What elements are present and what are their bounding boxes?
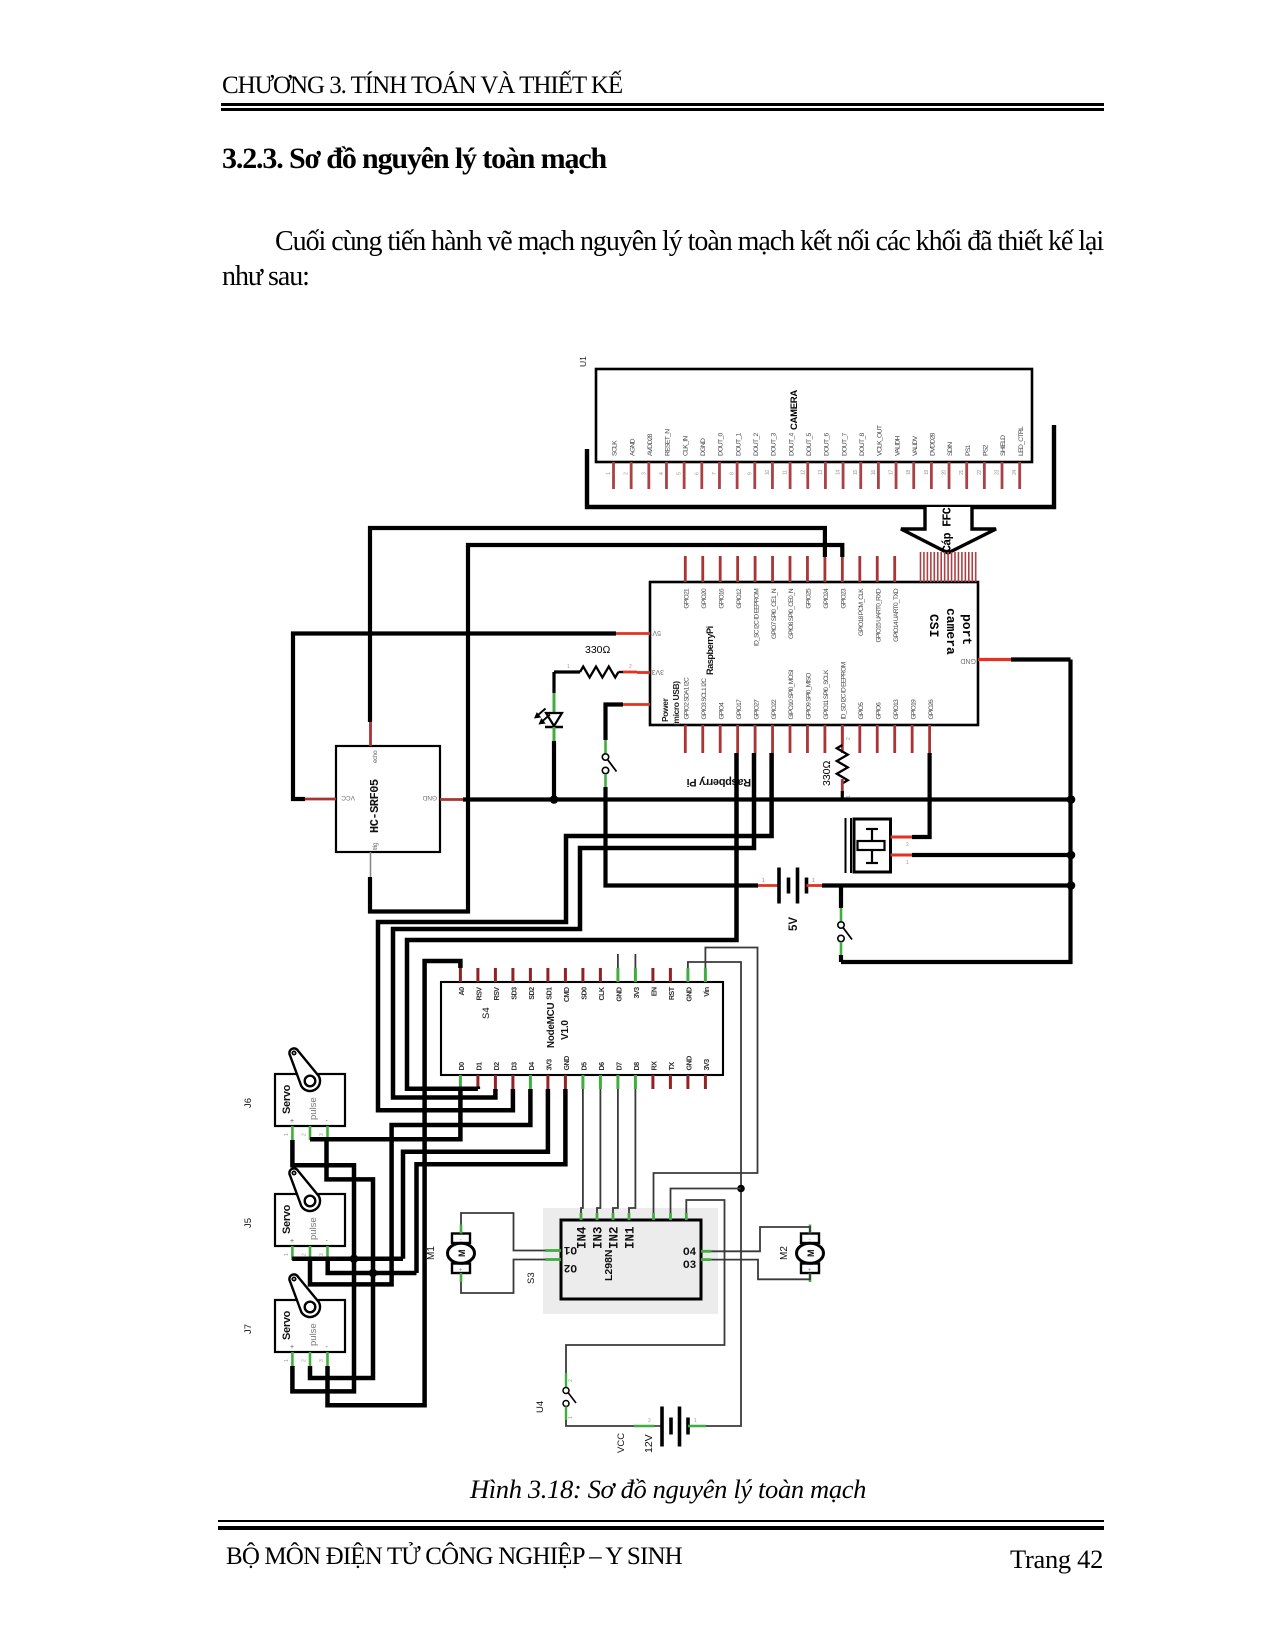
svg-text:M2: M2: [779, 1246, 790, 1260]
svg-text:2: 2: [629, 664, 632, 670]
RaspberryPi top pin GPIO24: [823, 556, 830, 609]
svg-text:HC-SRF05: HC-SRF05: [368, 779, 382, 833]
motor driver L298N (module S3): [543, 1208, 718, 1314]
svg-text:IN2: IN2: [608, 1226, 622, 1249]
svg-text:2: 2: [302, 1133, 308, 1136]
svg-text:D1: D1: [474, 1062, 483, 1071]
label CSI camera port: [926, 608, 974, 655]
LED D1 emission arrows: [534, 709, 550, 725]
svg-text:Servo: Servo: [281, 1204, 293, 1234]
svg-text:1: 1: [762, 878, 765, 884]
svg-text:GPIO19: GPIO19: [910, 699, 917, 720]
svg-text:GPIO5: GPIO5: [858, 702, 865, 720]
camera U1 pin 19 DVDD28: [924, 432, 937, 489]
NodeMCU bottom pin D1: [474, 1062, 483, 1089]
svg-text:U1: U1: [578, 356, 588, 367]
svg-text:+: +: [290, 1238, 294, 1245]
wire: M1 plus to L298N O1: [461, 1213, 546, 1251]
node VCC (12V battery left stub): [616, 1426, 654, 1453]
svg-text:5V: 5V: [652, 629, 661, 636]
svg-text:GPIO27: GPIO27: [753, 699, 760, 720]
svg-text:VALIDH: VALIDH: [894, 435, 901, 456]
svg-text:5: 5: [677, 472, 683, 475]
L298N pin IN2: [608, 1213, 622, 1249]
footer left text: [226, 1543, 682, 1571]
L298N pin O3: [683, 1260, 711, 1272]
svg-text:D5: D5: [579, 1062, 588, 1071]
wire: L298N GND pin to battery minus wire: [671, 1189, 742, 1214]
svg-text:14: 14: [836, 470, 842, 475]
svg-text:GPIO26: GPIO26: [928, 699, 935, 720]
svg-text:330Ω: 330Ω: [821, 760, 833, 786]
svg-text:GPIO4: GPIO4: [718, 702, 725, 720]
svg-text:AVDD28: AVDD28: [647, 433, 654, 456]
camera U1 pin 24 LED_CTRL: [1012, 426, 1025, 489]
svg-text:M: M: [457, 1250, 467, 1258]
wire: switch S2 column (battery line to bottom rail): [839, 886, 843, 909]
NodeMCU top pin GND: [614, 968, 623, 1002]
RaspberryPi left pin 5V: [616, 629, 661, 636]
NodeMCU bottom pin GND: [562, 1056, 571, 1089]
svg-text:RSV: RSV: [474, 987, 483, 1001]
svg-text:VCC: VCC: [341, 794, 355, 801]
NodeMCU top pin 3V3: [632, 968, 641, 999]
NodeMCU top pin CLK: [597, 968, 606, 1000]
NodeMCU V1.0 module S4: [441, 982, 723, 1075]
NodeMCU bottom pin D0: [457, 1062, 466, 1089]
svg-text:GPIO13: GPIO13: [893, 699, 900, 720]
footer rule: [218, 1520, 1104, 1522]
svg-text:S4: S4: [481, 1007, 492, 1019]
camera U1 pin 2 AGND: [624, 438, 637, 489]
RaspberryPi bottom pin GPIO5: [858, 702, 865, 753]
camera U1 pin 13 DOUT_6: [818, 432, 831, 489]
svg-text:O4: O4: [683, 1247, 697, 1259]
servo motor J5: [275, 1168, 345, 1246]
svg-text:D3: D3: [509, 1062, 518, 1071]
camera U1 pin 20 SDIN: [942, 442, 955, 489]
camera U1 pin 21 PS1: [959, 444, 972, 489]
wire: FFC cable outline around camera: [587, 425, 1054, 507]
junction: GND rail at main GND rail: [1067, 795, 1076, 804]
header rule: [221, 103, 1104, 106]
wire: L298N +12V pin to switch U4: [566, 1200, 725, 1373]
svg-text:GPIO18 PCM_CLK: GPIO18 PCM_CLK: [858, 588, 865, 636]
svg-text:LED_CTRL: LED_CTRL: [1018, 426, 1025, 456]
camera U1 pin 3 AVDD28: [641, 433, 654, 489]
svg-text:330Ω: 330Ω: [585, 644, 611, 656]
svg-text:+: +: [290, 1344, 294, 1351]
wire: NodeMCU GND stub up (dangling): [617, 954, 619, 968]
svg-text:24: 24: [1012, 470, 1018, 475]
svg-text:pulse: pulse: [308, 1217, 319, 1240]
wire: NodeMCU D4 to servo J5 pulse: [310, 1089, 530, 1284]
HC-SRF05 pin echo: [371, 722, 380, 763]
servo motor J6: [275, 1048, 345, 1126]
J5 pin pulse: [302, 1246, 310, 1260]
RaspberryPi bottom pin GPIO27: [753, 699, 760, 753]
wire: buzzer pin1 to right rail: [912, 853, 1071, 857]
wire: NodeMCU GND to servo minus rail: [417, 1089, 566, 1273]
J6 pin pulse: [302, 1126, 310, 1140]
svg-text:trig: trig: [372, 842, 379, 850]
svg-text:PS2: PS2: [983, 444, 990, 456]
wire: 5V battery minus to right rail: [822, 883, 1071, 887]
svg-text:PS1: PS1: [965, 444, 972, 456]
L298N power pin: [685, 1213, 688, 1220]
svg-text:SCLK: SCLK: [612, 440, 619, 456]
wire: NodeMCU D8 to L298N IN1: [629, 1089, 635, 1213]
svg-text:CMD: CMD: [562, 987, 571, 1002]
svg-text:DOUT_1: DOUT_1: [735, 432, 742, 456]
junction: LED cathode on GND rail: [550, 795, 559, 804]
svg-text:23: 23: [995, 470, 1001, 475]
wire: NodeMCU 3V3 to servo plus rail: [403, 1089, 548, 1259]
svg-text:1: 1: [568, 1416, 574, 1419]
wire: switch U4 to VCC (12V battery plus): [566, 1420, 634, 1426]
svg-text:-: -: [326, 1344, 329, 1351]
svg-text:GPIO17: GPIO17: [736, 699, 743, 720]
HC-SRF05 pin VCC: [305, 794, 355, 801]
svg-text:DOUT_7: DOUT_7: [841, 432, 848, 456]
svg-text:CLK_IN: CLK_IN: [682, 436, 689, 456]
svg-text:O3: O3: [683, 1260, 697, 1272]
camera U1 pin 17 VALIDH: [889, 435, 902, 489]
RaspberryPi bottom pin GIPO10: [788, 669, 795, 753]
CSI camera port pin header: [921, 552, 976, 582]
J6 pin + (plus): [284, 1126, 292, 1140]
svg-text:VALIDV: VALIDV: [912, 435, 919, 456]
svg-text:GND: GND: [562, 1056, 571, 1071]
RaspberryPi bottom pin GPIO2: [684, 677, 691, 753]
junction: battery line on right rail: [1067, 881, 1076, 890]
svg-text:Servo: Servo: [281, 1310, 293, 1340]
svg-text:port: port: [959, 614, 974, 645]
svg-text:1: 1: [284, 1133, 290, 1136]
RaspberryPi bottom pin GPIO13: [893, 699, 900, 753]
svg-text:S3: S3: [526, 1272, 537, 1284]
svg-text:DOUT_3: DOUT_3: [771, 432, 778, 456]
svg-text:16: 16: [871, 470, 877, 475]
RaspberryPi top pin GPIO8: [788, 556, 795, 639]
svg-text:-: -: [326, 1118, 329, 1125]
svg-text:Power: Power: [660, 697, 670, 722]
svg-text:L298N: L298N: [603, 1249, 615, 1281]
NodeMCU top pin RSV: [492, 968, 501, 1000]
NodeMCU top pin RSV: [474, 968, 483, 1000]
svg-text:1: 1: [812, 878, 815, 884]
M1 terminal stub top: [460, 1225, 463, 1234]
svg-text:GPIO16: GPIO16: [718, 588, 725, 609]
svg-text:DOUT_6: DOUT_6: [824, 432, 831, 456]
L298N pin IN4: [576, 1213, 590, 1249]
NodeMCU bottom pin D2: [492, 1062, 501, 1089]
svg-text:DOUT_0: DOUT_0: [718, 432, 725, 456]
L298N pin O1: [546, 1243, 578, 1255]
wire: switch S1 to 5V battery plus: [606, 787, 759, 886]
svg-text:15: 15: [853, 470, 859, 475]
svg-text:DOUT_5: DOUT_5: [806, 432, 813, 456]
wire: right vertical GND rail: [841, 660, 1071, 963]
svg-text:DOUT_2: DOUT_2: [753, 432, 760, 456]
NodeMCU bottom pin 3V3: [544, 1059, 553, 1089]
NodeMCU bottom pin D5: [579, 1062, 588, 1089]
wire: RaspberryPi 5V to HC-SRF05 VCC: [293, 634, 616, 800]
RaspberryPi top pin GPIO25: [806, 556, 813, 609]
wire: RaspberryPi GPIO27 bus to NodeMCU D2: [393, 753, 754, 1098]
wire: RaspberryPi GND to right rail: [1011, 657, 1071, 661]
svg-text:2: 2: [648, 1418, 651, 1424]
svg-text:13: 13: [818, 470, 824, 475]
svg-text:D0: D0: [457, 1062, 466, 1071]
NodeMCU bottom pin RX: [649, 1061, 658, 1089]
svg-text:(micro USB): (micro USB): [671, 681, 681, 726]
svg-text:8: 8: [730, 472, 736, 475]
svg-text:GPIO6: GPIO6: [875, 702, 882, 720]
wire: switch S2 to bottom rail corner: [839, 955, 843, 962]
switch S1: [602, 740, 616, 787]
svg-text:3: 3: [319, 1133, 325, 1136]
svg-text:U4: U4: [535, 1401, 546, 1413]
camera U1 pin 5 CLK_IN: [677, 436, 690, 489]
svg-text:SHIELD: SHIELD: [1000, 435, 1007, 456]
buzzer pin 2: [891, 837, 913, 848]
svg-text:IN3: IN3: [592, 1226, 606, 1249]
svg-text:GPIO23: GPIO23: [841, 588, 848, 609]
svg-text:17: 17: [889, 470, 895, 475]
svg-text:VCLK_OUT: VCLK_OUT: [877, 425, 884, 456]
camera U1 pin 9 DOUT_2: [747, 432, 760, 489]
12V battery right stub: [688, 1425, 706, 1428]
svg-text:D7: D7: [614, 1062, 623, 1071]
RaspberryPi top pin GPIO12: [736, 556, 743, 609]
RaspberryPi top pin ID_SC: [753, 556, 760, 646]
svg-text:GPIO2 SDA1 I2C: GPIO2 SDA1 I2C: [684, 677, 691, 719]
svg-text:21: 21: [959, 470, 965, 475]
svg-text:2: 2: [906, 842, 909, 848]
wire: NodeMCU D6 to L298N IN3: [597, 1089, 600, 1213]
svg-text:M1: M1: [426, 1246, 437, 1260]
J7 pin - (minus): [319, 1352, 328, 1366]
HC-SRF05 pin GND: [422, 794, 463, 801]
svg-text:RaspberryPi: RaspberryPi: [705, 626, 715, 675]
page header: chapter title: [222, 72, 622, 100]
junction: J5 minus line on J6 minus bus: [369, 1269, 378, 1278]
NodeMCU top pin SD0: [579, 968, 588, 1000]
NodeMCU bottom pin D3: [509, 1062, 518, 1089]
camera U1 pin 4 RESET_N: [659, 429, 672, 489]
svg-text:DGND: DGND: [700, 438, 707, 456]
paragraph line 2: [222, 261, 309, 293]
junction: J5 plus on plus bus: [350, 1255, 359, 1264]
svg-text:1: 1: [284, 1253, 290, 1256]
svg-text:19: 19: [924, 470, 930, 475]
svg-text:CLK: CLK: [597, 986, 606, 1000]
svg-text:RSV: RSV: [492, 987, 501, 1001]
svg-text:GPIO14 UART0_TXD: GPIO14 UART0_TXD: [893, 588, 900, 642]
camera U1 pin 1 SCLK: [606, 440, 619, 489]
wire: RaspberryPi Power pin to switch S1: [606, 705, 624, 741]
svg-text:3: 3: [319, 1253, 325, 1256]
svg-text:AGND: AGND: [629, 438, 636, 456]
svg-text:3: 3: [641, 472, 647, 475]
svg-text:RST: RST: [667, 986, 676, 1000]
svg-text:18: 18: [906, 470, 912, 475]
J7 pin pulse: [302, 1352, 310, 1366]
RaspberryPi top pin GPIO18: [858, 556, 865, 636]
NodeMCU top pin GND: [684, 968, 693, 1002]
camera U1 pin 7 DOUT_0: [712, 432, 725, 489]
J6 pin - (minus): [319, 1126, 328, 1140]
buzzer LS1 (piezo): [846, 818, 891, 873]
camera U1 pin 14 DOUT_7: [836, 432, 849, 489]
svg-text:DOUT_4: DOUT_4: [788, 432, 795, 456]
L298N pin O4: [683, 1247, 711, 1259]
svg-text:GPIO15 UART0_RXD: GPIO15 UART0_RXD: [875, 588, 882, 642]
svg-text:6: 6: [694, 472, 700, 475]
NodeMCU bottom pin D8: [632, 1062, 641, 1089]
svg-text:GPIO25: GPIO25: [806, 588, 813, 609]
wire: GND rail (HC-SRF05 GND to right rail): [463, 797, 1071, 801]
svg-text:1: 1: [606, 472, 612, 475]
svg-text:D8: D8: [632, 1062, 641, 1071]
DC motor M1: [448, 1234, 475, 1274]
camera U1 pin 23 SHIELD: [995, 435, 1008, 489]
svg-text:GPIO9 SPI0_MISO: GPIO9 SPI0_MISO: [806, 673, 813, 720]
wire: L298N O4 to M2 plus: [711, 1227, 810, 1251]
M2 terminal stub top: [809, 1225, 812, 1234]
servo motor J7: [275, 1274, 345, 1352]
J5 pin + (plus): [284, 1246, 292, 1260]
RaspberryPi right pin GND: [960, 657, 1011, 664]
svg-text:3V3: 3V3: [702, 1059, 711, 1071]
NodeMCU top pin A0: [457, 968, 466, 996]
RaspberryPi top pin GPIO23: [841, 556, 848, 609]
svg-text:+: +: [290, 1118, 294, 1125]
svg-text:4: 4: [659, 472, 665, 475]
svg-text:GND: GND: [614, 987, 623, 1002]
camera U1 pin 11 DOUT_4: [783, 432, 796, 489]
wire: M1 minus to L298N O2: [461, 1260, 546, 1294]
NodeMCU top pin SD2: [527, 968, 536, 1000]
svg-text:SD2: SD2: [527, 987, 536, 1000]
RaspberryPi top pin GPIO21: [684, 556, 691, 609]
RaspberryPi bottom pin GPIO4: [718, 702, 725, 753]
svg-text:J5: J5: [243, 1218, 254, 1228]
NodeMCU top pin EN: [649, 968, 658, 996]
svg-text:11: 11: [783, 470, 789, 475]
camera module U1: [578, 356, 1032, 462]
Raspberry Pi block: [650, 582, 978, 725]
L298N pin IN1: [624, 1213, 638, 1249]
svg-text:2: 2: [302, 1253, 308, 1256]
svg-text:20: 20: [942, 470, 948, 475]
RaspberryPi bottom pin GPIO9: [806, 673, 813, 753]
svg-text:1: 1: [284, 1359, 290, 1362]
switch S2: [838, 908, 852, 955]
svg-text:22: 22: [977, 470, 983, 475]
wire: servo plus bus (J6+, J5+, J7+): [292, 1140, 354, 1391]
L298N pin O2: [546, 1260, 578, 1274]
camera U1 pin 8 DOUT_1: [730, 432, 743, 489]
svg-text:SD1: SD1: [544, 987, 553, 1000]
RaspberryPi left pin Power (micro USB): [623, 681, 681, 726]
L298N power pin: [652, 1213, 655, 1220]
camera U1 pin 22 PS2: [977, 444, 990, 489]
buzzer pin 1: [891, 855, 913, 866]
NodeMCU top pin RST: [667, 968, 676, 1000]
wire: NodeMCU D5 to L298N IN4: [581, 1089, 583, 1213]
wire: NodeMCU D0 to servo J6 pulse: [310, 1089, 460, 1139]
NodeMCU bottom pin GND: [684, 1056, 693, 1089]
svg-text:IN1: IN1: [624, 1226, 638, 1249]
battery BT2 12V: [648, 1407, 697, 1447]
svg-text:D6: D6: [597, 1062, 606, 1071]
RaspberryPi bottom pin GPIO22: [771, 699, 778, 753]
svg-text:DVDD28: DVDD28: [930, 432, 937, 456]
camera U1 pin 18 VALIDV: [906, 435, 919, 489]
HC-SRF05 pin trig: [371, 842, 380, 877]
wire: NodeMCU A0 trunk to servo J7 minus: [328, 961, 461, 1405]
svg-text:9: 9: [747, 472, 753, 475]
NodeMCU bottom pin 3V3: [702, 1059, 711, 1089]
svg-text:SD3: SD3: [509, 987, 518, 1000]
svg-text:2: 2: [302, 1359, 308, 1362]
section heading 3.2.3: [222, 142, 606, 176]
Cap FFC arrow into CSI port: [901, 507, 996, 553]
J5 pin - (minus): [319, 1246, 328, 1260]
svg-text:D2: D2: [492, 1062, 501, 1071]
svg-text:GPIO21: GPIO21: [684, 588, 691, 609]
svg-text:+: +: [459, 1268, 463, 1274]
NodeMCU top pin SD1: [544, 968, 553, 1000]
svg-text:SDIN: SDIN: [947, 442, 954, 456]
ultrasonic sensor HC-SRF05: [336, 746, 440, 852]
svg-text:GPIO11 SPI0_SCLK: GPIO11 SPI0_SCLK: [823, 669, 830, 719]
svg-text:GPIO7 SPI0_CE1_N: GPIO7 SPI0_CE1_N: [771, 588, 778, 639]
svg-text:GPIO24: GPIO24: [823, 588, 830, 609]
svg-text:DOUT_8: DOUT_8: [859, 432, 866, 456]
RaspberryPi top pin GPIO20: [701, 556, 708, 609]
junction: GND rail at buzzer pin1 line: [1067, 851, 1076, 860]
svg-text:NodeMCU: NodeMCU: [546, 1002, 557, 1048]
svg-text:Servo: Servo: [281, 1084, 293, 1114]
svg-text:GND: GND: [684, 1056, 693, 1071]
svg-text:GPIO22: GPIO22: [771, 699, 778, 720]
NodeMCU top pin SD3: [509, 968, 518, 1000]
wire: RaspberryPi GPIO22 bus to NodeMCU D3: [378, 753, 772, 1110]
M1 terminal stub bottom: [460, 1273, 463, 1282]
RaspberryPi left pin 3V3: [637, 668, 664, 675]
svg-text:3V3: 3V3: [544, 1059, 553, 1071]
svg-text:1: 1: [906, 860, 909, 866]
svg-text:12: 12: [800, 470, 806, 475]
RaspberryPi top pin GPIO15: [875, 556, 882, 643]
svg-text:-: -: [460, 1238, 462, 1244]
RaspberryPi bottom pin GPIO3: [701, 678, 708, 753]
resistor R2 330 Ohm (vertical): [821, 725, 852, 800]
svg-text:1: 1: [567, 664, 570, 670]
paragraph line 1: [275, 226, 1103, 258]
battery BT1 5V: [758, 868, 822, 904]
svg-text:GND: GND: [960, 657, 976, 664]
wire: RaspberryPi GPIO17 bus to NodeMCU D1: [407, 753, 737, 1089]
svg-text:RX: RX: [649, 1061, 658, 1071]
RaspberryPi bottom pin GPIO11: [823, 669, 830, 753]
NodeMCU bottom pin D7: [614, 1062, 623, 1089]
svg-text:CAMERA: CAMERA: [789, 390, 800, 430]
svg-text:10: 10: [765, 470, 771, 475]
